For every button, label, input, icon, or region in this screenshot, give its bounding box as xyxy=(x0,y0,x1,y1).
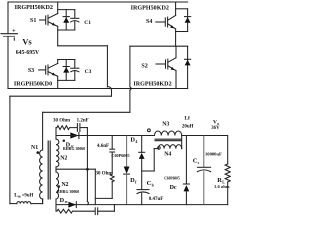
svg-text:S4: S4 xyxy=(146,19,152,25)
svg-text:36V: 36V xyxy=(211,126,220,131)
svg-text:IRGPH50KD2: IRGPH50KD2 xyxy=(133,81,171,87)
svg-text:645-695V: 645-695V xyxy=(16,50,40,56)
svg-text:1.2nF: 1.2nF xyxy=(77,118,89,123)
svg-text:N1: N1 xyxy=(31,145,38,151)
svg-text:C1: C1 xyxy=(84,20,91,26)
svg-text:0.47uF: 0.47uF xyxy=(149,197,164,202)
svg-text:IRGPH50KD0: IRGPH50KD0 xyxy=(14,81,52,87)
svg-text:Vs: Vs xyxy=(22,37,32,47)
svg-text:C60P6005: C60P6005 xyxy=(164,176,180,180)
svg-text:N2: N2 xyxy=(60,155,67,161)
svg-text:4.6nF: 4.6nF xyxy=(97,144,109,149)
svg-text:Lf: Lf xyxy=(184,115,190,121)
svg-text:IRGPH50KD2: IRGPH50KD2 xyxy=(131,6,169,12)
svg-text:S1: S1 xyxy=(30,18,36,24)
svg-text:=9uH: =9uH xyxy=(22,193,34,198)
svg-text:N2: N2 xyxy=(61,182,68,188)
svg-text:lk: lk xyxy=(18,195,21,199)
svg-text:N4: N4 xyxy=(164,151,171,157)
svg-text:S2: S2 xyxy=(141,64,147,70)
svg-text:N3: N3 xyxy=(162,121,169,127)
svg-text:Dc: Dc xyxy=(170,185,177,191)
svg-text:V: V xyxy=(213,120,217,126)
svg-text:+: + xyxy=(12,28,16,34)
svg-text:30 Ohm: 30 Ohm xyxy=(53,118,71,123)
svg-text:30 Ohm: 30 Ohm xyxy=(95,172,113,177)
svg-text:rc: rc xyxy=(65,200,69,204)
svg-text:S3: S3 xyxy=(28,68,34,74)
svg-text:10000uF: 10000uF xyxy=(205,151,222,156)
svg-text:4: 4 xyxy=(135,139,137,144)
svg-text:C60P6005: C60P6005 xyxy=(111,153,129,158)
svg-text:IRGPH50KD2: IRGPH50KD2 xyxy=(15,5,53,11)
svg-text:C3: C3 xyxy=(85,69,92,75)
svg-text:RHRG 30060: RHRG 30060 xyxy=(63,147,85,151)
svg-text:1.6 ohm: 1.6 ohm xyxy=(214,184,230,189)
svg-text:20uH: 20uH xyxy=(182,124,194,129)
svg-text:RHRG 30060: RHRG 30060 xyxy=(57,190,79,194)
